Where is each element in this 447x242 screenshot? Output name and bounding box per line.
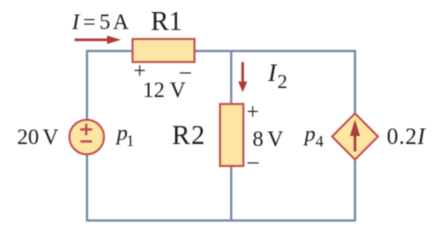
label 8 V (253, 128, 284, 150)
label R1 (151, 8, 183, 35)
label − (R2 bottom polarity) (248, 150, 259, 172)
label p1 (117, 122, 135, 149)
label p4 (305, 123, 324, 150)
label R2 (172, 122, 206, 149)
wire bottom horizontal (86, 219, 356, 221)
wire left vertical upper (86, 50, 88, 121)
resistor R2 (220, 104, 243, 166)
voltage source p1 (independent source circle) (69, 120, 104, 155)
wire right vertical upper (354, 50, 356, 115)
wire top middle horizontal (R1 to middle node) (194, 50, 231, 52)
wire right vertical lower (354, 158, 356, 222)
wire left vertical lower (86, 153, 88, 222)
label 0.2I (387, 125, 426, 148)
wire middle vertical lower (230, 165, 232, 221)
label I2 (268, 61, 286, 91)
label + (R1 left polarity) (134, 60, 146, 82)
wire middle vertical upper (230, 51, 232, 105)
resistor R1 (133, 39, 195, 62)
wire top right horizontal (middle node to right corner) (231, 50, 356, 52)
label 12 V (143, 79, 186, 101)
label + (R2 top polarity) (247, 101, 259, 123)
label I = 5 A (72, 11, 129, 33)
label 20 V (17, 126, 59, 148)
dependent source p4 (diamond) (332, 113, 378, 159)
wire top-left horizontal (86, 50, 133, 52)
current arrow I = 5 A (red, pointing right) (75, 36, 122, 44)
current arrow I2 (red, pointing down) (238, 62, 247, 92)
label − (R1 right polarity) (180, 60, 191, 82)
